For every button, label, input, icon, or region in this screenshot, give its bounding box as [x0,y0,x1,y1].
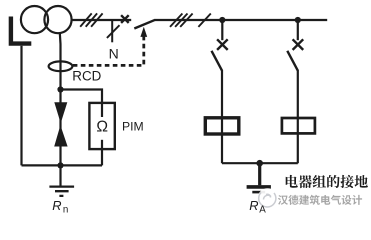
neutral slash on bus [198,14,210,27]
dashed trip link RCD to switch [73,36,144,65]
wire N tap [111,20,113,42]
wire transformer secondary down through RCD to node B [59,33,62,166]
wire phase bus from transformer [72,19,131,21]
svg-text:R: R [249,198,258,213]
node A junction dot [57,86,63,92]
node C junction dot (bus tap 1) [219,17,225,23]
svg-text:Ω: Ω [96,119,108,136]
ground symbol Rn [49,187,74,196]
switch blade QF [134,20,155,29]
transformer T1 winding 2 [44,6,71,33]
fuse cross X1 [121,15,129,23]
node D junction dot (bus tap 2) [295,17,301,23]
wire from earth bracket down to bottom rail [20,46,22,166]
conductor count slashes (3) on bus [170,14,193,27]
wire circuit 1 to load [221,70,223,163]
fault current arrow down [54,102,67,123]
breaker cross X2 [217,39,228,50]
Omega text mask [95,117,111,140]
svg-text:PIM: PIM [122,119,144,133]
wire PIM branch top [61,90,103,166]
PIM box [89,103,114,149]
branch circuit 2 drop [297,20,299,40]
neutral slash mark [107,25,120,38]
watermark CN text [278,195,362,205]
node B junction dot [57,162,63,168]
conductor count slashes (3) on feeder [80,13,102,26]
load box L2 [282,118,315,133]
ground electrode lead Rn [59,165,61,185]
node E junction dot (ground rail) [256,160,263,167]
wire circuit 2 to load [297,70,299,163]
load box L1 [205,118,239,134]
ground electrode lead RA [258,163,261,185]
wire bus after switch [155,19,327,21]
transformer T1 winding 1 [21,6,48,33]
earth bracket at transformer neutral [9,17,32,44]
svg-text:RCD: RCD [72,69,101,84]
fault current arrow up [54,125,67,146]
watermark logo swirl [258,188,278,208]
ground symbol RA [247,185,271,189]
dashed link arrowhead [140,27,147,37]
breaker cross X3 [293,39,304,50]
wire equipment ground rail [222,162,298,164]
breaker blade circuit 2 [287,51,298,71]
RCD toroid [49,61,73,71]
svg-text:R: R [52,198,61,213]
svg-text:n: n [63,204,68,215]
breaker blade circuit 1 [212,51,223,71]
svg-text:A: A [259,205,266,216]
wire bottom rail to node B [22,164,103,166]
branch circuit 1 drop [221,20,223,40]
label CN: equipment group earthing [286,175,368,188]
svg-text:N: N [109,46,119,62]
